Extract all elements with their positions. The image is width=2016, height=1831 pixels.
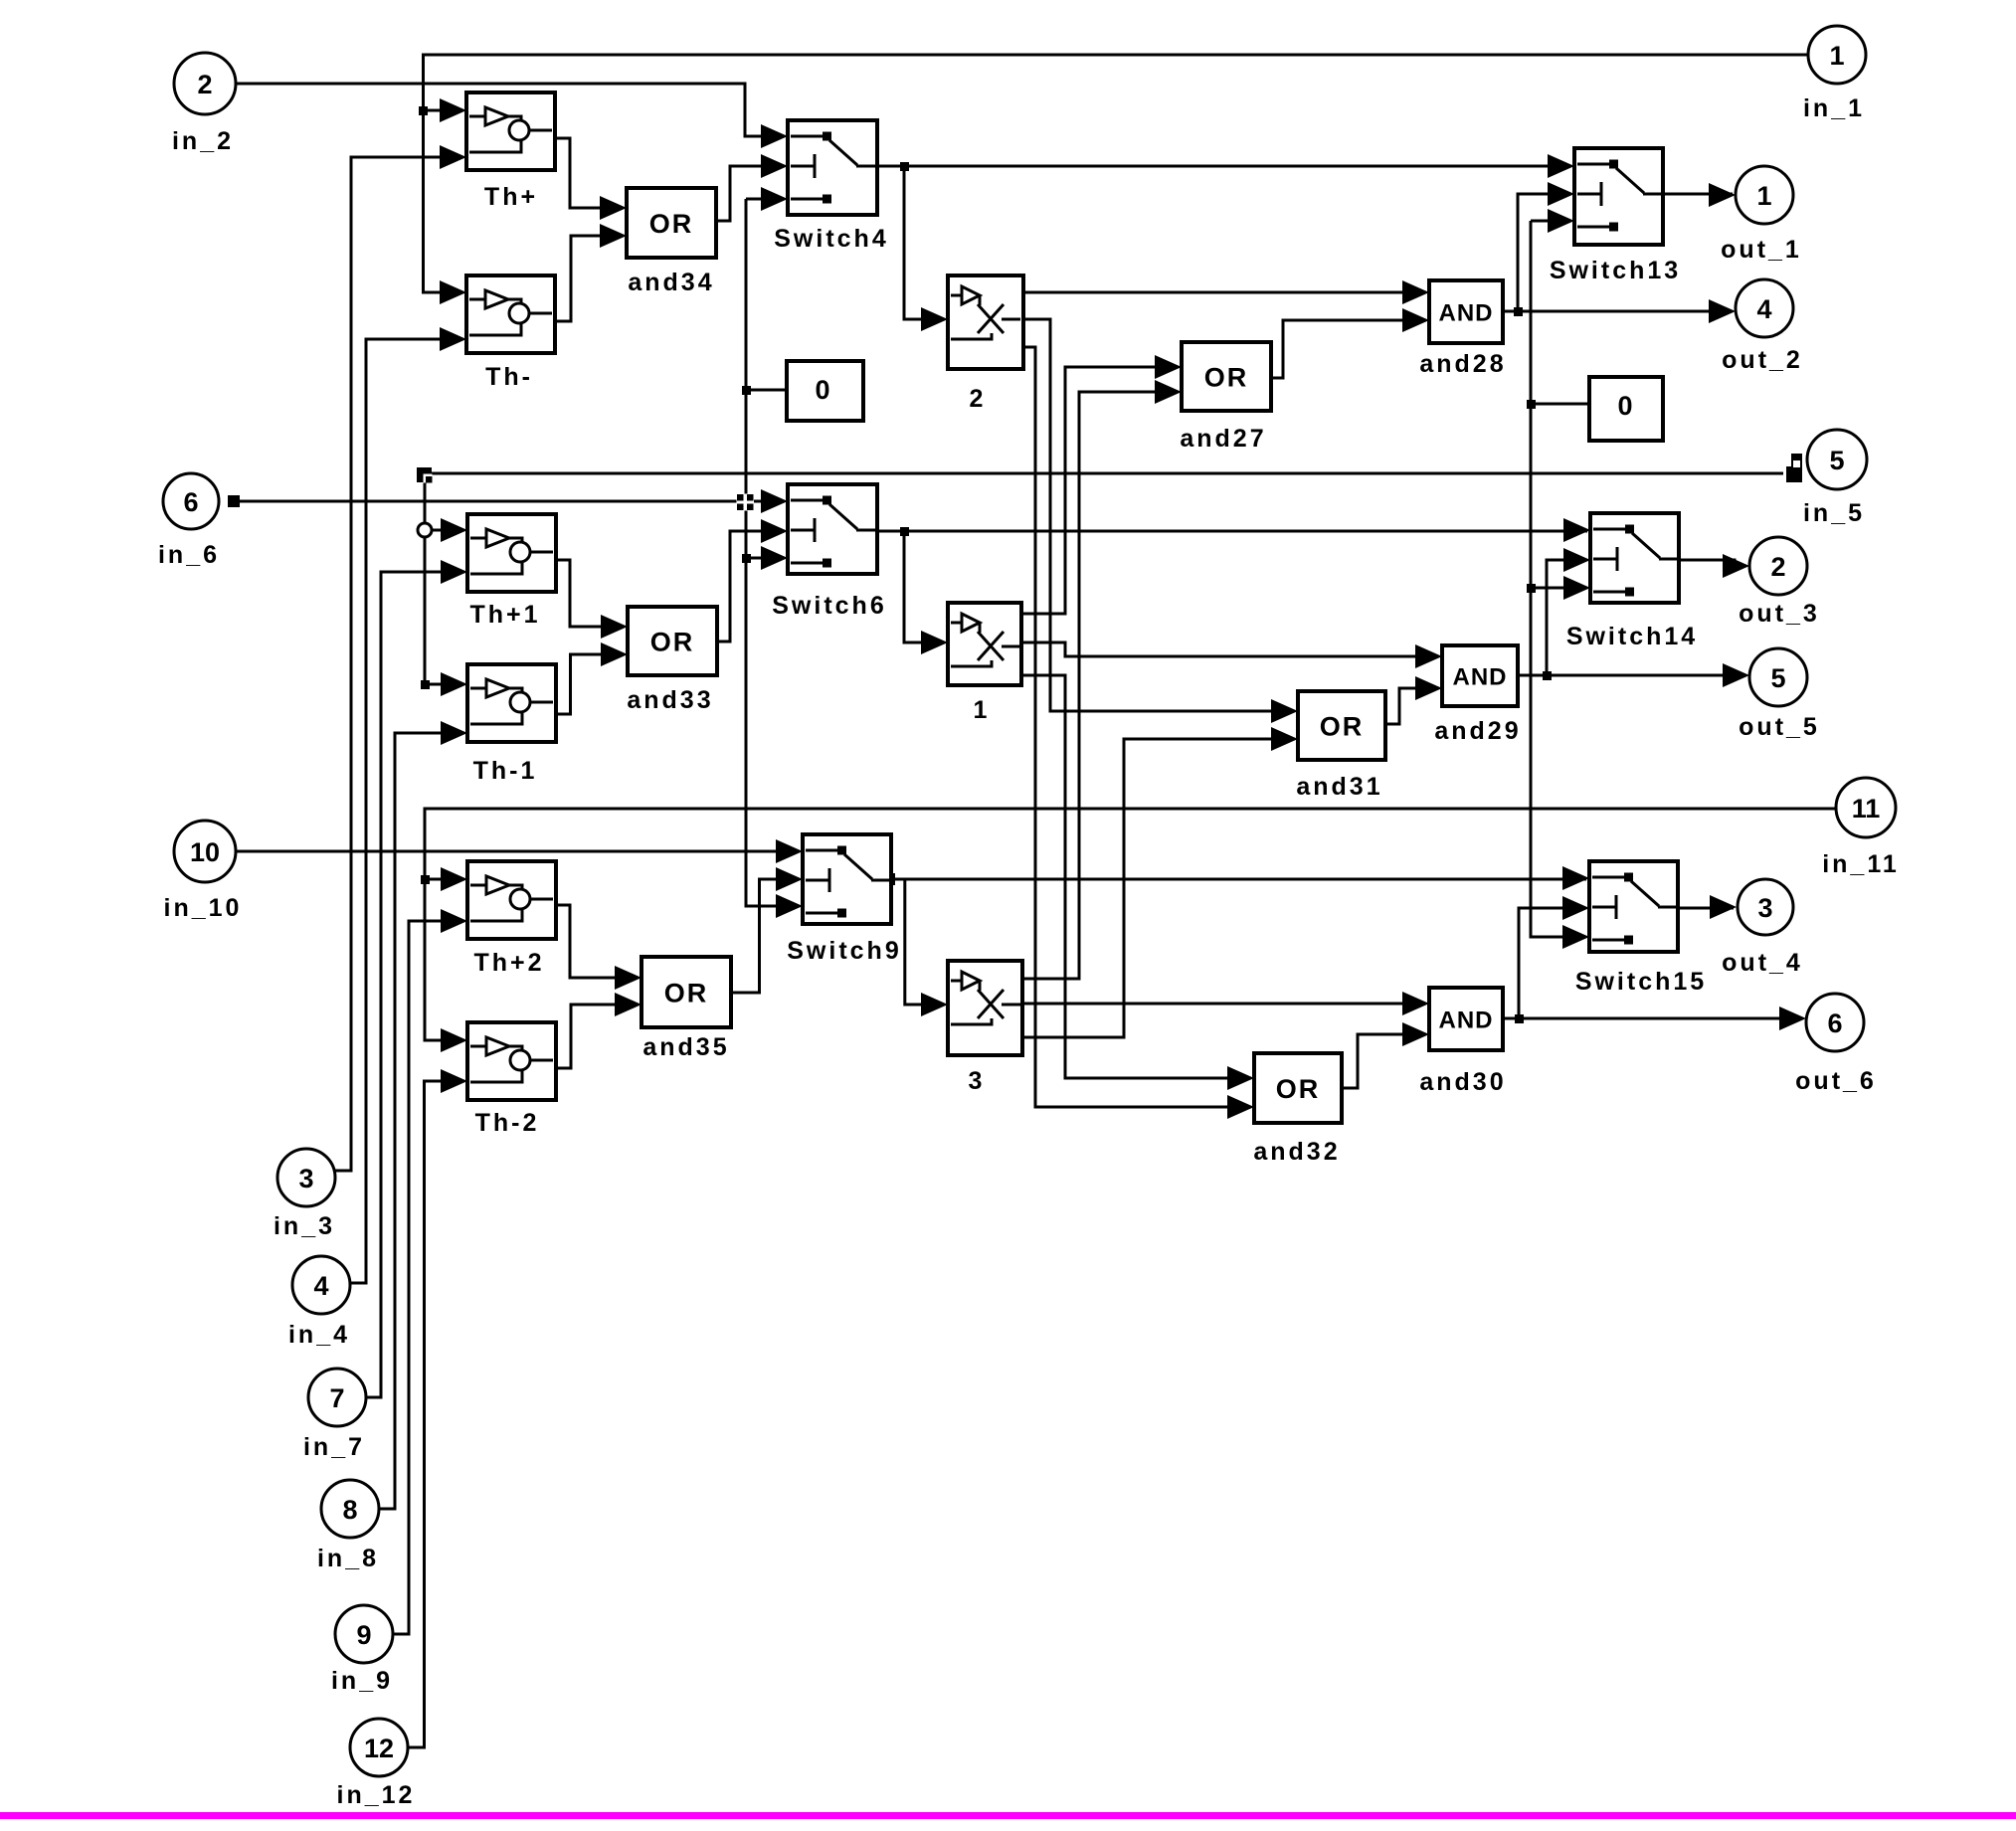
junction Switch4 output xyxy=(900,162,909,171)
svg-text:out_3: out_3 xyxy=(1739,600,1820,628)
marker at in_5 port connection xyxy=(1786,466,1802,482)
svg-text:and27: and27 xyxy=(1180,425,1266,453)
junction Switch14 input3 branch xyxy=(1527,584,1536,593)
switch block Switch4 xyxy=(774,120,888,253)
svg-text:and35: and35 xyxy=(642,1033,729,1061)
svg-text:AND: AND xyxy=(1439,1007,1494,1034)
svg-text:6: 6 xyxy=(1827,1008,1842,1038)
svg-text:out_5: out_5 xyxy=(1739,713,1820,741)
svg-text:AND: AND xyxy=(1439,300,1494,327)
wire branch and28 output to Switch13 input 2 xyxy=(1518,194,1571,311)
wire net constant0b to Switch13/Switch14/Switch15 input 3 xyxy=(1531,221,1591,937)
junction in_1 branch xyxy=(419,106,428,115)
wire net in_5 to Th+1 and Th-1 inputs 1 xyxy=(425,473,1783,684)
wire net and28 output to out_2 xyxy=(1501,310,1733,313)
svg-text:4: 4 xyxy=(1756,294,1771,324)
wire net block1 output1 to and27 input 1 xyxy=(1018,367,1179,614)
svg-text:Th+: Th+ xyxy=(484,183,538,211)
wire net and35 output to Switch9 input 2 xyxy=(728,879,800,993)
subsystem Th+2 xyxy=(467,861,556,977)
OR gate and31 xyxy=(1296,691,1385,801)
wire net constant0a to Switch4/Switch6/Switch9 input 3 xyxy=(746,199,800,906)
switch block Switch6 xyxy=(772,484,886,620)
subsystem Th+1 xyxy=(467,514,556,629)
svg-text:10: 10 xyxy=(190,837,220,867)
wire net and30 output to out_6 xyxy=(1501,1017,1803,1020)
AND gate and28 xyxy=(1419,280,1506,378)
svg-text:3: 3 xyxy=(1757,893,1772,923)
wire net and27 output to and28 input 2 xyxy=(1269,320,1426,378)
wire net in_9 to Th+2 input 2 xyxy=(393,921,464,1634)
wire net Th-1 output to and33 input 2 xyxy=(553,654,625,714)
OR gate and32 xyxy=(1253,1053,1342,1166)
svg-text:Switch14: Switch14 xyxy=(1566,623,1698,650)
wire net block3 output1 to and27 input 2 xyxy=(1019,392,1179,979)
subsystem block 3 xyxy=(948,961,1022,1095)
svg-text:Th-: Th- xyxy=(485,363,533,391)
wire net Switch14 output to out_3 xyxy=(1676,560,1746,566)
arrow into out_5 xyxy=(1723,663,1749,687)
OR gate and33 xyxy=(627,607,717,714)
input port 9 (in_9) xyxy=(331,1605,393,1695)
junction Switch6 input3 branch xyxy=(742,554,751,563)
svg-text:9: 9 xyxy=(356,1620,371,1650)
svg-text:Switch9: Switch9 xyxy=(787,937,901,965)
subsystem Th- xyxy=(466,275,555,391)
svg-text:OR: OR xyxy=(650,628,695,657)
wire net in_7 to Th+1 input 2 xyxy=(353,572,464,1397)
wire branch in_1 to Th+ input 1 xyxy=(424,109,464,112)
wire net in_1 to Th+ and Th- inputs 1 xyxy=(424,55,1809,292)
constant block 0 (right) xyxy=(1589,377,1663,441)
svg-text:out_4: out_4 xyxy=(1722,949,1803,977)
wire net block3 output2 to and30 input 1 xyxy=(1019,1003,1426,1006)
svg-text:and31: and31 xyxy=(1296,773,1382,801)
svg-text:2: 2 xyxy=(1770,552,1785,582)
svg-text:8: 8 xyxy=(342,1495,357,1525)
junction and28 output xyxy=(1514,307,1523,316)
output port 3 (out_3) xyxy=(1739,537,1820,628)
svg-text:and30: and30 xyxy=(1419,1068,1506,1096)
svg-text:out_6: out_6 xyxy=(1795,1067,1877,1095)
subsystem Th-1 xyxy=(467,664,556,785)
subsystem Th-2 xyxy=(467,1022,556,1137)
svg-text:1: 1 xyxy=(1756,181,1771,211)
svg-text:AND: AND xyxy=(1453,664,1508,691)
wire net in_2 to Switch4 input 1 xyxy=(236,84,785,136)
svg-text:OR: OR xyxy=(649,209,694,239)
svg-text:Switch6: Switch6 xyxy=(772,592,886,620)
wire net and33 output to Switch6 input 2 xyxy=(714,531,785,641)
svg-text:5: 5 xyxy=(1829,446,1844,475)
svg-text:in_8: in_8 xyxy=(317,1545,379,1572)
constant block 0 (left) xyxy=(787,361,863,421)
svg-text:OR: OR xyxy=(1320,712,1365,742)
magenta bottom border strip xyxy=(0,1812,2016,1819)
svg-text:Switch15: Switch15 xyxy=(1575,968,1707,996)
wire net and34 output to Switch4 input 2 xyxy=(714,166,785,221)
arrow into out_6 xyxy=(1779,1007,1806,1030)
junction Th-1 input1 branch xyxy=(421,680,430,689)
wire net in_4 to Th- input 2 xyxy=(350,339,463,1283)
input port 5 (in_5) xyxy=(1803,430,1867,527)
svg-text:Th+1: Th+1 xyxy=(469,601,540,629)
junction and29 output xyxy=(1543,671,1552,680)
switch block Switch15 xyxy=(1575,861,1707,996)
wire net block1 output2 to and29 input 1 xyxy=(1018,642,1439,656)
svg-text:in_7: in_7 xyxy=(303,1433,365,1461)
wire net block2 output3 to and32 input 2 xyxy=(1020,347,1251,1107)
wire net block3 output3 to and31 input 2 xyxy=(1019,739,1295,1037)
wire net block2 output2 to and31 input 1 xyxy=(1020,319,1295,711)
wire branch and30 output to Switch15 input 2 xyxy=(1519,908,1586,1018)
wire net Th- output to and34 input 2 xyxy=(553,236,624,321)
wire branch Switch6 output to block 1 input xyxy=(904,531,945,642)
marker corner of in_5 net xyxy=(417,467,432,482)
wire net in_3 to Th+ input 2 xyxy=(335,157,463,1171)
svg-text:Switch4: Switch4 xyxy=(774,225,888,253)
wire net and31 output to and29 input 2 xyxy=(1382,688,1439,724)
wire net in_11 to Th+2 and Th-2 inputs 1 xyxy=(425,809,1836,1040)
wire branch Switch9 output to block 3 input xyxy=(905,879,945,1005)
wire net and29 output to out_5 xyxy=(1515,674,1746,677)
svg-text:5: 5 xyxy=(1770,663,1785,693)
wire branch and29 output to Switch14 input 2 xyxy=(1547,560,1587,675)
svg-text:in_11: in_11 xyxy=(1822,850,1900,878)
wire net Th+1 output to and33 input 1 xyxy=(553,560,625,627)
svg-text:7: 7 xyxy=(329,1383,344,1413)
subsystem block 2 xyxy=(948,275,1023,413)
svg-text:0: 0 xyxy=(1617,391,1632,421)
crossing marker on Th+1 input 1 branch xyxy=(418,523,432,537)
wire branch in_11 to Th+2 input 1 xyxy=(425,878,464,881)
svg-text:4: 4 xyxy=(313,1271,328,1301)
wire net Th+2 output to and35 input 1 xyxy=(553,905,639,978)
switch block Switch14 xyxy=(1566,513,1698,650)
wire net Switch6 output to Switch14 input 1 xyxy=(874,530,1587,533)
svg-text:1: 1 xyxy=(1829,41,1844,71)
output port 4 (out_4) xyxy=(1722,879,1803,977)
svg-text:11: 11 xyxy=(1852,794,1881,824)
arrow into out_1 xyxy=(1709,183,1736,207)
output port 5 (out_5) xyxy=(1739,648,1820,741)
OR gate and35 xyxy=(641,957,731,1061)
svg-text:in_4: in_4 xyxy=(288,1321,350,1349)
OR gate and34 xyxy=(627,188,716,296)
svg-text:OR: OR xyxy=(664,979,709,1008)
svg-text:OR: OR xyxy=(1204,363,1249,393)
svg-text:Th-1: Th-1 xyxy=(473,757,538,785)
svg-text:and29: and29 xyxy=(1434,717,1521,745)
subsystem Th+ xyxy=(466,92,555,211)
svg-text:in_1: in_1 xyxy=(1803,94,1865,122)
wire net Th-2 output to and35 input 2 xyxy=(553,1005,639,1068)
junction constant0b line xyxy=(1527,400,1536,409)
svg-text:2: 2 xyxy=(197,70,212,99)
OR gate and27 xyxy=(1180,342,1271,453)
input port 10 (in_10) xyxy=(164,821,243,922)
wire net Switch15 output to out_4 xyxy=(1675,907,1734,910)
output port 1 (out_1) xyxy=(1721,166,1802,264)
svg-text:Th+2: Th+2 xyxy=(473,949,544,977)
AND gate and29 xyxy=(1434,645,1521,745)
wire net in_10 to Switch9 input 1 xyxy=(236,850,800,853)
svg-text:in_6: in_6 xyxy=(158,541,220,569)
svg-text:in_12: in_12 xyxy=(337,1781,416,1809)
svg-text:out_1: out_1 xyxy=(1721,236,1802,264)
svg-text:and28: and28 xyxy=(1419,350,1506,378)
wire branch in_5 to Th+1 input 1 xyxy=(425,529,464,532)
input port 2 (in_2) xyxy=(172,53,236,155)
junction constant0a line xyxy=(742,386,751,395)
wire branch Switch4 output to block 2 input xyxy=(904,166,945,319)
svg-text:1: 1 xyxy=(974,696,991,724)
wire net Switch4 output to Switch13 input 1 xyxy=(874,165,1571,168)
output port 2 (out_2) xyxy=(1722,279,1803,374)
input port 7 (in_7) xyxy=(303,1369,366,1461)
output port 6 (out_6) xyxy=(1795,994,1877,1095)
input port 12 (in_12) xyxy=(337,1719,416,1809)
marker at in_6 port connection xyxy=(228,495,240,507)
wire net in_6 to Switch6 input 1 xyxy=(239,500,785,503)
svg-text:0: 0 xyxy=(815,375,829,405)
wire net Switch9 output to Switch15 input 1 xyxy=(888,878,1586,881)
junction and30 output xyxy=(1515,1014,1524,1023)
svg-text:Th-2: Th-2 xyxy=(475,1109,540,1137)
input port 11 (in_11) xyxy=(1822,778,1900,878)
wire net and32 output to and30 input 2 xyxy=(1339,1034,1426,1088)
switch block Switch9 xyxy=(787,834,901,965)
subsystem block 1 xyxy=(948,603,1021,724)
svg-text:12: 12 xyxy=(364,1734,394,1763)
arrow into out_3 xyxy=(1723,554,1749,578)
input port 1 (in_1) xyxy=(1803,26,1866,122)
wire net in_8 to Th-1 input 2 xyxy=(366,733,464,1509)
svg-text:6: 6 xyxy=(183,487,198,517)
input port 6 (in_6) xyxy=(158,473,220,569)
arrow into out_4 xyxy=(1710,895,1737,919)
input port 4 (in_4) xyxy=(288,1256,350,1349)
svg-text:OR: OR xyxy=(1276,1074,1321,1104)
svg-text:in_2: in_2 xyxy=(172,127,234,155)
arrow into out_2 xyxy=(1709,299,1736,323)
svg-text:Switch13: Switch13 xyxy=(1550,257,1681,284)
svg-text:and33: and33 xyxy=(627,686,713,714)
svg-text:and32: and32 xyxy=(1253,1138,1340,1166)
svg-text:3: 3 xyxy=(298,1164,313,1193)
svg-text:and34: and34 xyxy=(628,269,714,296)
junction Switch9 output xyxy=(883,873,895,885)
svg-text:3: 3 xyxy=(969,1067,986,1095)
wire net block1 output3 to and32 input 1 xyxy=(1018,675,1251,1078)
svg-text:in_10: in_10 xyxy=(164,894,243,922)
AND gate and30 xyxy=(1419,988,1506,1096)
wire net block2 output1 to and28 input 1 xyxy=(1020,291,1426,294)
svg-text:in_9: in_9 xyxy=(331,1667,393,1695)
wire net in_12 to Th-2 input 2 xyxy=(408,1081,464,1747)
switch block Switch13 xyxy=(1550,148,1681,284)
svg-text:2: 2 xyxy=(970,385,987,413)
svg-text:in_5: in_5 xyxy=(1803,499,1865,527)
input port 8 (in_8) xyxy=(317,1480,379,1572)
svg-text:in_3: in_3 xyxy=(274,1212,335,1240)
crossing marker on in_6 wire xyxy=(737,494,755,511)
svg-text:out_2: out_2 xyxy=(1722,346,1803,374)
junction Th+2 input1 branch xyxy=(421,875,430,884)
junction Switch6 output xyxy=(900,527,909,536)
wire net Switch13 output to out_1 xyxy=(1661,193,1733,196)
wire net Th+ output to and34 input 1 xyxy=(553,138,624,208)
input port 3 (in_3) xyxy=(274,1149,335,1240)
